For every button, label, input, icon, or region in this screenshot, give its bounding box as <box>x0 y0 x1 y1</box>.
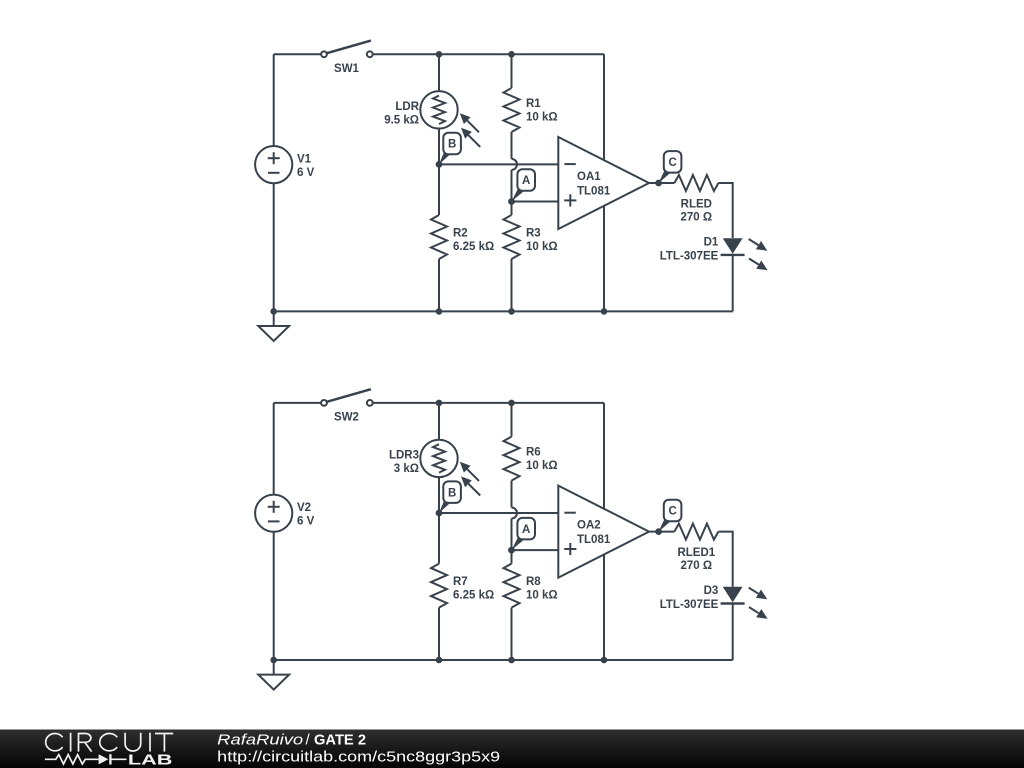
wire LED D3 bottom lead <box>732 604 734 661</box>
svg-text:R1: R1 <box>526 98 541 110</box>
junction dots <box>270 400 607 664</box>
wire left vertical upper (V2 top lead) <box>273 403 275 495</box>
wire top rail left segment (SW1 left lead) <box>274 53 321 55</box>
label SW2 <box>334 411 359 423</box>
resistor RLED <box>674 175 718 191</box>
svg-text:R2: R2 <box>453 228 468 240</box>
label R6 value <box>526 447 558 472</box>
wire LED D1 bottom lead <box>732 255 734 312</box>
footer bar <box>0 730 1024 768</box>
wire node A to op-amp non-inverting input <box>512 549 559 551</box>
svg-text:A: A <box>522 175 530 187</box>
wire hop to node A and R8 <box>511 519 513 564</box>
label R3 value <box>526 228 558 253</box>
wire top rail right segment (SW2 to top-right corner) <box>373 402 604 404</box>
ground <box>258 311 289 341</box>
node C <box>655 500 681 535</box>
op-amp OA1 <box>558 137 649 229</box>
label LDR value <box>384 101 420 127</box>
svg-text:6 V: 6 V <box>297 167 315 179</box>
svg-text:C: C <box>668 506 676 518</box>
svg-text:SW1: SW1 <box>334 63 360 75</box>
footer url <box>217 749 500 766</box>
label D1 value <box>660 237 719 263</box>
label SW1 <box>334 63 360 75</box>
label R8 value <box>526 576 558 601</box>
wire op-amp output to node C <box>649 182 674 184</box>
wire R3 bottom lead <box>511 259 513 311</box>
node A <box>508 518 535 554</box>
label RLED value <box>680 199 712 224</box>
ground <box>258 660 289 690</box>
svg-text:V1: V1 <box>297 153 312 165</box>
svg-text:10 kΩ: 10 kΩ <box>526 589 558 601</box>
wire LDR to node B and R2 <box>438 129 440 216</box>
wire hop over node-B wire <box>512 159 518 170</box>
wire left vertical lower (V2 bottom lead) <box>273 532 275 660</box>
svg-text:6.25 kΩ: 6.25 kΩ <box>453 589 494 601</box>
label V2 value <box>297 502 315 528</box>
label RLED1 value <box>677 547 715 572</box>
svg-text:R6: R6 <box>526 447 541 459</box>
wire op-amp output to node C <box>649 531 674 533</box>
label R2 value <box>453 228 494 253</box>
svg-text:C: C <box>668 157 676 169</box>
label D3 value <box>660 585 719 611</box>
resistor R2 <box>431 215 447 259</box>
node A <box>508 169 535 205</box>
LED D3 <box>721 587 768 619</box>
wire hop over node-B wire <box>512 508 518 519</box>
CircuitLab logo resistor-diode glyph <box>45 754 127 764</box>
wire R6 top lead <box>511 403 513 437</box>
svg-text:OA2: OA2 <box>577 520 601 532</box>
wire left vertical lower (V1 bottom lead) <box>273 183 275 311</box>
LED D1 <box>721 238 768 270</box>
photoresistor LDR <box>420 91 480 147</box>
label LDR3 value <box>389 449 419 475</box>
photoresistor LDR3 <box>420 440 480 496</box>
svg-text:D1: D1 <box>704 237 719 249</box>
wire R1 bottom to hop <box>511 132 513 159</box>
svg-text:B: B <box>448 487 456 499</box>
svg-text:TL081: TL081 <box>577 534 611 546</box>
svg-text:RLED: RLED <box>681 199 712 211</box>
svg-text:6 V: 6 V <box>297 515 315 527</box>
svg-text:6.25 kΩ: 6.25 kΩ <box>453 241 494 253</box>
switch SW2 <box>321 389 373 406</box>
wire right vertical (supply rail down) <box>603 403 605 660</box>
wire R6 bottom to hop <box>511 481 513 508</box>
svg-text:270 Ω: 270 Ω <box>680 211 712 223</box>
node B <box>436 481 461 516</box>
svg-text:10 kΩ: 10 kΩ <box>526 460 558 472</box>
op-amp OA2 <box>558 486 649 578</box>
resistor R3 <box>504 215 520 259</box>
wire RLED to LED D1 <box>718 183 732 238</box>
wire RLED1 to LED D3 <box>718 532 732 587</box>
wire top rail right segment (SW1 to top-right corner) <box>373 53 604 55</box>
svg-text:http://circuitlab.com/c5nc8ggr: http://circuitlab.com/c5nc8ggr3p5x9 <box>217 749 500 766</box>
wire node B to op-amp inverting input <box>439 163 558 165</box>
switch SW1 <box>321 41 373 58</box>
label V1 value <box>297 153 315 179</box>
svg-text:GATE 2: GATE 2 <box>314 732 366 749</box>
wire node A to op-amp non-inverting input <box>512 201 559 203</box>
resistor R7 <box>431 564 447 608</box>
wire right vertical (supply rail down) <box>603 54 605 311</box>
svg-text:270 Ω: 270 Ω <box>680 560 712 572</box>
svg-text:V2: V2 <box>297 502 311 514</box>
label OA2 TL081 <box>577 520 611 546</box>
label R1 value <box>526 98 558 123</box>
svg-text:LDR: LDR <box>395 101 419 113</box>
svg-text:LTL-307EE: LTL-307EE <box>660 251 719 263</box>
footer author / title <box>217 732 366 749</box>
svg-text:RafaRuivo: RafaRuivo <box>217 732 303 749</box>
svg-text:SW2: SW2 <box>334 411 359 423</box>
wire node B to op-amp inverting input <box>439 512 558 514</box>
wire R7 bottom lead <box>438 608 440 660</box>
svg-text:LAB: LAB <box>128 752 173 768</box>
resistor RLED1 <box>674 524 718 540</box>
wire R8 bottom lead <box>511 608 513 660</box>
svg-text:10 kΩ: 10 kΩ <box>526 111 558 123</box>
wire R1 top lead <box>511 54 513 88</box>
svg-text:TL081: TL081 <box>577 185 611 197</box>
wire bottom rail <box>274 659 733 661</box>
svg-text:R8: R8 <box>526 576 541 588</box>
CircuitLab logo wordmark LAB <box>128 752 173 768</box>
CircuitLab logo wordmark CIRCUIT <box>46 733 174 752</box>
svg-text:3 kΩ: 3 kΩ <box>394 463 419 475</box>
wire hop to node A and R3 <box>511 170 513 215</box>
svg-text:LTL-307EE: LTL-307EE <box>660 599 719 611</box>
resistor R1 <box>504 88 520 132</box>
svg-text:LDR3: LDR3 <box>389 449 419 461</box>
svg-text:10 kΩ: 10 kΩ <box>526 241 558 253</box>
svg-text:R7: R7 <box>453 576 468 588</box>
svg-text:R3: R3 <box>526 228 541 240</box>
node C <box>655 151 681 186</box>
label OA1 TL081 <box>577 171 611 197</box>
wire R2 bottom lead <box>438 259 440 311</box>
junction dots <box>270 51 607 315</box>
wire left vertical upper (V1 top lead) <box>273 54 275 146</box>
wire bottom rail <box>274 310 733 312</box>
svg-text:B: B <box>448 139 456 151</box>
wire LDR branch top lead <box>438 54 440 91</box>
resistor R6 <box>504 437 520 481</box>
svg-text:OA1: OA1 <box>577 171 601 183</box>
voltage source V1 <box>255 146 292 183</box>
svg-text:9.5 kΩ: 9.5 kΩ <box>384 114 419 126</box>
svg-text:RLED1: RLED1 <box>677 547 715 559</box>
node B <box>436 133 461 168</box>
wire LDR3 to node B and R7 <box>438 477 440 563</box>
wire top rail left segment (SW2 left lead) <box>274 402 321 404</box>
svg-text:D3: D3 <box>704 585 719 597</box>
label R7 value <box>453 576 494 601</box>
svg-text:A: A <box>522 524 530 536</box>
resistor R8 <box>504 564 520 608</box>
voltage source V2 <box>255 495 292 532</box>
wire LDR3 branch top lead <box>438 403 440 440</box>
